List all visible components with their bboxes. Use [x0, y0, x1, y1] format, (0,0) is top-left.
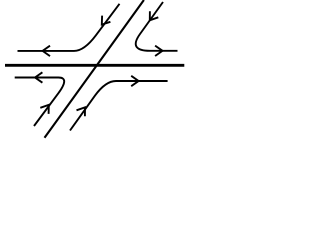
arrowhead on strand B diagonal part, pointing down-left — [150, 11, 159, 20]
wire: strand D curve (enters from bottom, bends to exit right) — [70, 81, 168, 131]
wire: straight diagonal line crossing the horizontal — [45, 0, 144, 138]
wire: strand A curve (enters from top, bends to exit left) — [18, 4, 120, 51]
wire: strand B hook (enters from top, hooks around to exit right) — [136, 2, 178, 51]
arrowhead on strand A diagonal part, pointing down-left — [102, 16, 111, 25]
arrowhead on strand C horizontal part, pointing left — [35, 72, 42, 82]
wire: strand C hook (enters from bottom, hooks around to exit left) — [15, 78, 65, 127]
arrowhead on strand B horizontal part, pointing right — [155, 46, 162, 56]
arrowhead on strand D horizontal part, pointing right — [131, 76, 138, 86]
arrowhead on strand A horizontal part, pointing left — [43, 46, 50, 56]
wire: thick straight horizontal line — [5, 64, 184, 67]
arrowhead on strand D diagonal part, pointing up-right — [77, 107, 86, 116]
arrowhead on strand C diagonal part, pointing up-right — [40, 105, 49, 114]
